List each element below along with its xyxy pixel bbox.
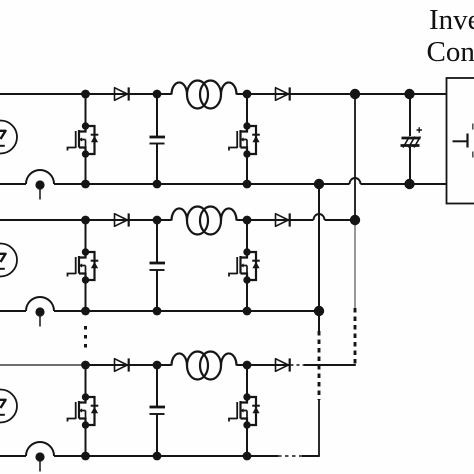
inverter/control box <box>447 78 474 204</box>
wire: converter 1 bottom rail (hop to inverter box) <box>361 183 448 185</box>
wire: positive bus bold dashed to converter 3 <box>354 308 357 364</box>
wire: converter 3 bottom rail (to bus corner) <box>302 455 320 457</box>
output diode, converter 2 <box>276 213 290 226</box>
node: converter 2 output positive joins bus <box>350 215 360 225</box>
MOSFET with body diode, converter 2 leg 1 <box>68 252 95 280</box>
wire: negative bus bold dashed <box>318 331 321 400</box>
svg-text:Inverter: Inverter <box>429 4 474 36</box>
node: converter 3 bottom rail junctions <box>81 452 90 461</box>
diode, converter 3 first stage <box>115 358 129 371</box>
node: DC bus top at capacitor <box>404 89 414 99</box>
node: DC bus bottom at capacitor <box>404 179 414 189</box>
wire: converter 1 switch leg 2 drain <box>246 94 248 126</box>
inductor, converter 3 <box>172 352 237 380</box>
inductor, converter 2 <box>172 207 237 235</box>
wire: converter 2 switch leg 1 drain <box>85 220 87 252</box>
wire: DC link capacitor leg lower <box>409 147 411 184</box>
IGBT symbol fragment inside inverter box <box>453 124 473 158</box>
current sensor, converter 2 bottom rail <box>26 297 54 327</box>
wire: converter 3 switch leg 2 drain <box>246 365 248 397</box>
wire: converter 1 bottom rail (left end) <box>0 183 26 185</box>
wire: converter 3 capacitor leg upper <box>156 365 158 407</box>
node: converter 2 bottom rail joins negative bus <box>314 306 324 316</box>
wire: converter 2 switch leg 2 source <box>246 280 248 311</box>
diode, converter 2 first stage <box>115 213 129 226</box>
wire: converter 1 bottom rail (sensor to hop) <box>54 183 350 185</box>
output diode, converter 3 <box>276 358 290 371</box>
node: converter 2 bottom rail junctions <box>81 307 90 316</box>
wire: converter 1 top rail (left of inductor) <box>0 93 172 95</box>
node: converter 1 top rail junctions <box>81 90 90 99</box>
wire: converter 2 top rail (inductor to hop) <box>237 219 314 221</box>
MOSFET with body diode, converter 1 leg 1 <box>68 126 95 154</box>
wire: converter 2 capacitor leg lower <box>156 271 158 312</box>
wire: converter 3 capacitor leg lower <box>156 415 158 457</box>
ellipsis: repeated modules indicator <box>84 326 87 349</box>
wire: converter 3 switch leg 2 source <box>246 425 248 456</box>
wire: converter 1 switch leg 1 drain <box>85 94 87 126</box>
wire: converter 2 top rail (hop to output node) <box>325 219 356 221</box>
wire: converter 2 bottom rail (left end) <box>0 310 26 312</box>
wire: positive bus dotted continuation <box>354 222 356 308</box>
wire: DC link capacitor leg upper <box>409 94 411 136</box>
capacitor, converter 1 mid link <box>150 137 166 144</box>
wire: converter 1 capacitor leg lower <box>156 144 158 184</box>
node: converter 2 top rail junctions <box>81 216 90 225</box>
node: converter 1 output positive on top rail <box>350 89 360 99</box>
node: converter 1 bottom rail joins negative bus <box>314 179 324 189</box>
node: converter 3 top rail junctions <box>81 361 90 370</box>
output diode, converter 1 <box>276 87 290 100</box>
wire: converter 2 top rail (left of inductor) <box>0 219 172 221</box>
capacitor, converter 2 mid link <box>150 263 166 270</box>
wire hop: converter 1 bottom rail over bus line <box>350 178 361 184</box>
wire: converter 3 top rail (inductor to diode) <box>237 364 291 366</box>
wire hop: converter 2 top rail over bus line <box>314 214 325 220</box>
wire: converter 3 top rail (left of inductor) <box>0 364 86 366</box>
wire: converter 3 bottom rail (sensor to dashes) <box>54 455 278 457</box>
wire: negative bus solid to converter 3 bottom corner <box>318 400 320 456</box>
wire: converter 3 bottom rail (left end) <box>0 455 26 457</box>
capacitor: DC link electrolytic with + mark <box>401 127 423 147</box>
MOSFET with body diode, converter 1 leg 2 <box>229 126 256 154</box>
PV source circle, converter 1 <box>0 121 17 154</box>
MOSFET with body diode, converter 3 leg 2 <box>229 397 256 425</box>
diode, converter 1 first stage <box>115 87 129 100</box>
PV source circle, converter 2 <box>0 244 17 277</box>
wire: converter 2 switch leg 2 drain <box>246 220 248 252</box>
wire: converter 3 switch leg 1 drain <box>85 365 87 397</box>
wire: converter 2 bottom rail (sensor to bus node) <box>54 310 319 312</box>
wire: converter 3 top rail dashed continuation <box>291 364 305 366</box>
node: converter 1 bottom rail junctions <box>81 180 90 189</box>
current sensor, converter 1 bottom rail <box>26 170 54 200</box>
wire: converter 3 top rail (to bus corner) <box>304 364 356 366</box>
wire: converter 3 bottom rail dashed continuation <box>278 455 302 457</box>
inductor, converter 1 <box>172 81 237 109</box>
wire: converter 1 capacitor leg upper <box>156 94 158 137</box>
MOSFET with body diode, converter 3 leg 1 <box>68 397 95 425</box>
wire: positive bus vertical (converter 1 output down to converter 2) <box>354 94 356 221</box>
current sensor, converter 3 bottom rail <box>26 442 54 472</box>
wire: converter 1 switch leg 1 source <box>85 154 87 184</box>
wire: converter 2 capacitor leg upper <box>156 220 158 263</box>
MOSFET with body diode, converter 2 leg 2 <box>229 252 256 280</box>
wire: negative bus vertical (converter 1 bottom to converter 2 bottom) <box>318 184 320 331</box>
wire: converter 3 switch leg 1 source <box>85 425 87 456</box>
wire: converter 2 switch leg 1 source <box>85 280 87 311</box>
svg-text:Control: Control <box>427 36 474 68</box>
wire: converter 1 top rail (inductor to inverter box) <box>237 93 448 95</box>
PV source circle, converter 3 <box>0 390 17 423</box>
wire: converter 1 switch leg 2 source <box>246 154 248 184</box>
capacitor, converter 3 mid link <box>150 407 166 414</box>
